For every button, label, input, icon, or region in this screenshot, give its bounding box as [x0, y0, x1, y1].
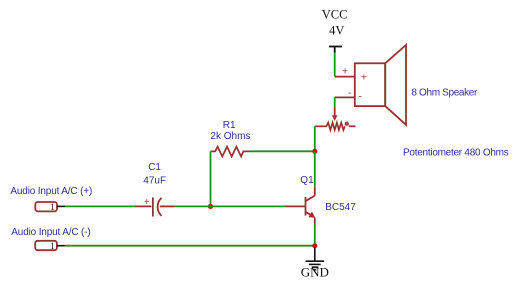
svg-text:BC547: BC547	[325, 202, 356, 213]
junction node emitter	[312, 243, 317, 248]
power symbol VCC	[329, 47, 342, 53]
potentiometer P1	[315, 122, 356, 130]
svg-text:-: -	[348, 88, 351, 99]
svg-text:+: +	[342, 67, 348, 78]
svg-text:R1: R1	[223, 120, 236, 131]
connector J1	[35, 202, 65, 213]
wire emitter down	[314, 225, 316, 246]
capacitor C1	[135, 197, 175, 217]
svg-text:Potentiometer 480 Ohms: Potentiometer 480 Ohms	[403, 147, 509, 158]
wire collector	[314, 151, 316, 186]
wire R1 left down	[210, 151, 212, 206]
wire VCC down	[334, 53, 336, 77]
svg-text:47uF: 47uF	[143, 176, 166, 187]
speaker LS1	[355, 45, 406, 125]
svg-text:1: 1	[50, 203, 55, 213]
wire to speaker plus	[335, 67, 355, 78]
svg-text:4V: 4V	[329, 23, 344, 37]
svg-text:Q1: Q1	[300, 175, 314, 186]
svg-text:2k Ohms: 2k Ohms	[210, 131, 250, 142]
wire J2 to emitter node	[65, 245, 315, 247]
svg-text:+: +	[361, 73, 367, 84]
svg-text:1: 1	[50, 242, 55, 252]
svg-text:C1: C1	[148, 162, 161, 173]
svg-text:VCC: VCC	[322, 8, 348, 22]
junction node collector top	[312, 149, 317, 154]
wire speaker minus	[335, 88, 355, 108]
svg-text:GND: GND	[301, 265, 329, 280]
ground	[306, 248, 325, 270]
svg-text:8 Ohm Speaker: 8 Ohm Speaker	[411, 88, 478, 99]
connector J2	[35, 241, 65, 252]
wire node to base	[211, 205, 286, 207]
wire pot left down to node	[314, 126, 316, 151]
svg-text:Audio Input A/C (-): Audio Input A/C (-)	[11, 227, 90, 238]
svg-text:+: +	[144, 197, 150, 208]
resistor R1	[211, 147, 250, 157]
wire J1 to C1	[65, 205, 135, 207]
junction node base	[208, 204, 213, 209]
transistor Q1	[286, 187, 315, 225]
svg-text:Audio Input A/C (+): Audio Input A/C (+)	[10, 186, 92, 197]
wiper arrow	[332, 108, 337, 120]
svg-text:-: -	[359, 92, 362, 103]
wire C1 to node	[175, 205, 211, 207]
wire R1 to node	[250, 150, 315, 152]
